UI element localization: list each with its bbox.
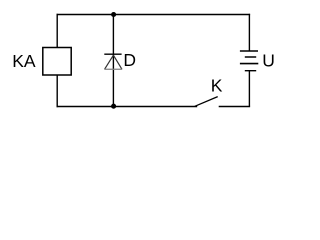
junction node: top bus / diode branch: [111, 12, 116, 17]
junction node: bottom bus / diode branch: [111, 104, 116, 109]
battery U plate 1 (long): [240, 50, 258, 52]
battery U plate 4 (short): [245, 70, 256, 72]
battery U plate 3 (long): [240, 63, 258, 65]
diode D triangle base: [104, 68, 122, 70]
switch K blade: [195, 97, 218, 107]
wire: top horizontal bus: [57, 14, 251, 16]
wire: right branch vertical (top bus to battery): [248, 14, 250, 51]
svg-text:K: K: [211, 76, 223, 96]
wire: bottom bus left segment: [57, 106, 198, 108]
battery U plate 2 (short): [245, 56, 256, 58]
wire: right branch vertical (battery to bottom bus): [248, 71, 250, 107]
wire: bottom bus right segment: [219, 106, 250, 108]
relay coil KA: [43, 48, 71, 76]
wire: diode branch vertical: [112, 15, 114, 107]
svg-text:U: U: [262, 50, 275, 70]
wire: left branch vertical (top bus to relay coil): [56, 14, 58, 48]
diode D triangle right side: [113, 55, 122, 69]
diode D triangle left side: [105, 55, 114, 69]
svg-text:KA: KA: [12, 51, 36, 71]
diode D cathode bar: [104, 53, 121, 55]
wire: left branch vertical (relay coil to bottom bus): [56, 75, 58, 107]
svg-text:D: D: [123, 50, 136, 70]
